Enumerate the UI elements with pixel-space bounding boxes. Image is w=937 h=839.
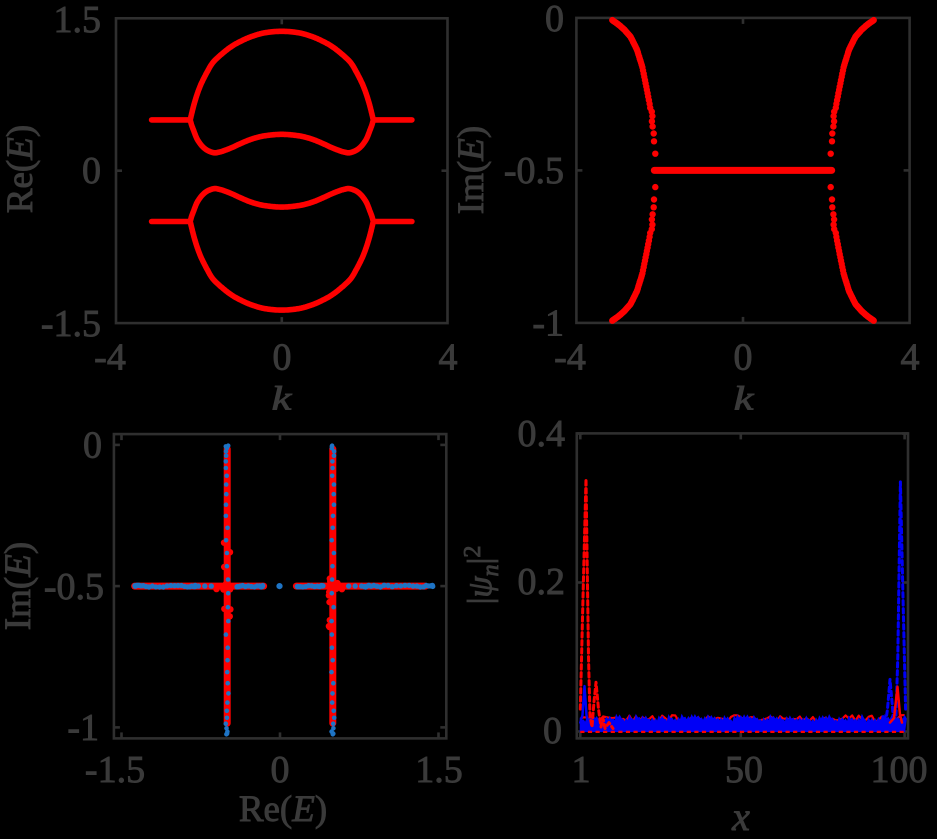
svg-text:Im(E): Im(E) [451,126,492,214]
svg-text:0: 0 [545,0,564,40]
panel 4 axes frame (|psi_n|^2 vs x) [577,433,908,738]
svg-text:x: x [731,794,750,839]
panel 2 branch curves (marker dot chains) [609,17,877,324]
panel 2 flat line Im=-0.5 [654,167,831,174]
svg-text:-1.5: -1.5 [85,749,145,791]
panel 4 red dashed left edge state [580,479,613,729]
svg-text:1: 1 [572,749,591,791]
svg-text:0: 0 [543,710,562,752]
panel 4 red solid right spike [890,687,902,723]
panel 3 red PBC horizontal arm left [135,583,264,590]
svg-text:Im(E): Im(E) [0,542,39,630]
svg-text:Re(E): Re(E) [0,125,41,213]
panel 1 flat band line Re=-0.5 right [373,219,412,225]
svg-text:-4: -4 [554,337,586,379]
svg-text:1.5: 1.5 [54,0,102,41]
svg-text:-4: -4 [94,337,126,379]
svg-text:-1.5: -1.5 [41,303,101,345]
svg-text:k: k [734,379,755,417]
panel 3 axes frame (Im(E) vs Re(E)) [114,434,446,738]
panel 3 red jitter dots near band crossings [213,540,345,631]
svg-text:-0.5: -0.5 [504,150,564,192]
svg-text:0.4: 0.4 [518,413,566,455]
svg-text:100: 100 [871,749,928,791]
svg-text:0: 0 [734,337,753,379]
panel 3 axis ticks [114,444,120,447]
svg-text:k: k [272,379,293,417]
panel 1 flat band line Re=-0.5 left [152,219,191,225]
panel 4 axis ticks [577,432,583,435]
panel 2 axes frame (Im(E) vs k) [576,18,909,323]
svg-text:0: 0 [271,749,290,791]
panel 1 upper band loop [190,31,373,153]
svg-text:0.2: 0.2 [518,561,566,603]
svg-text:-0.5: -0.5 [44,566,104,608]
svg-text:4: 4 [439,337,458,379]
panel 3 red PBC vertical arm Re=+0.5 [329,449,336,723]
svg-text:-1: -1 [67,707,99,749]
svg-text:Re(E): Re(E) [239,789,327,830]
panel 3 blue OBC bulk band dot chains on horizontal arm [132,583,435,590]
panel 1 axes frame (Re(E) vs k) [116,18,448,323]
svg-text:0: 0 [83,425,102,467]
panel 4 blue bulk states band (filled) [580,715,906,731]
panel 1 axis ticks [280,317,283,323]
svg-text:1.5: 1.5 [415,749,463,791]
svg-text:0: 0 [273,337,292,379]
panel 1 lower band loop [190,189,373,311]
panel 3 red PBC vertical arm Re=-0.5 [224,449,231,723]
panel 4 blue dashed right edge state [873,482,906,729]
panel 3 red PBC horizontal arm right [296,583,425,590]
panel 4 blue solid left spike [580,686,588,723]
svg-text:4: 4 [901,337,920,379]
panel 3 blue OBC eigenvalue dots on vertical arms [224,443,337,736]
svg-text:0: 0 [82,150,101,192]
svg-text:50: 50 [725,749,763,791]
panel 4 red bulk states noise line [580,715,904,722]
panel 1 flat band line Re=+0.5 right [373,117,412,123]
panel 2 axis ticks [742,317,745,323]
panel 4 red dashed baseline [580,731,904,733]
panel 1 flat band line Re=+0.5 left [152,117,191,123]
